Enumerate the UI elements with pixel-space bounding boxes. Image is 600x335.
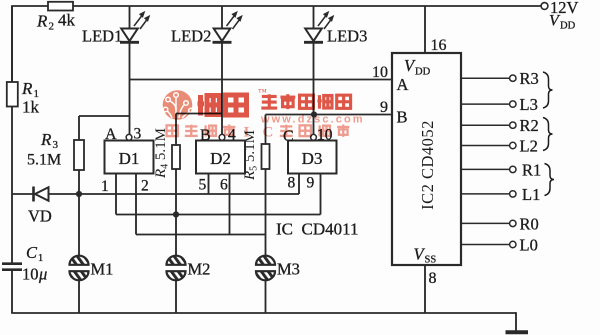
svg-text:2: 2: [141, 178, 149, 195]
svg-text:μ: μ: [38, 265, 47, 284]
ground: [515, 312, 517, 331]
terminal +12V: [541, 3, 548, 10]
svg-text:L3: L3: [520, 95, 538, 114]
svg-text:SS: SS: [425, 255, 437, 266]
svg-text:3: 3: [134, 126, 142, 143]
LED3: [313, 6, 315, 135]
svg-text:L2: L2: [520, 137, 538, 156]
electrode M2: [175, 280, 177, 314]
resistor R5 (vertical label): [262, 144, 270, 169]
wire D2 pin5 stub: [208, 174, 210, 195]
svg-text:R1: R1: [522, 160, 541, 179]
output L0: [461, 244, 510, 246]
svg-text:R3: R3: [520, 69, 539, 88]
output R1: [461, 168, 510, 170]
svg-text:B: B: [397, 108, 408, 127]
svg-text:C: C: [26, 243, 38, 262]
svg-text:10: 10: [372, 64, 388, 81]
LED2: [221, 6, 223, 135]
output R3: [461, 77, 510, 79]
svg-text:C: C: [263, 125, 274, 141]
svg-text:R: R: [36, 12, 48, 31]
capacitor C1: [2, 262, 22, 265]
svg-text:LED3: LED3: [327, 27, 367, 46]
svg-text:5.1M: 5.1M: [27, 152, 61, 169]
svg-text:LED1: LED1: [82, 27, 122, 46]
electrode M3: [265, 280, 267, 314]
svg-text:9: 9: [380, 99, 388, 116]
svg-text:D2: D2: [210, 149, 231, 168]
IC2 CD4052 box: [392, 53, 461, 265]
wire: top supply rail: [11, 5, 541, 7]
junction R4/M2/row2: [173, 211, 179, 217]
wire: row2 D1.1 to D3.9: [115, 174, 117, 215]
junction VD/R3/M1: [76, 191, 82, 197]
node B junction: [311, 111, 317, 117]
svg-text:1: 1: [101, 178, 109, 195]
gate D3: [288, 141, 337, 174]
svg-text:D3: D3: [302, 149, 323, 168]
wire: bottom rail: [11, 312, 516, 314]
svg-text:A: A: [105, 126, 117, 143]
resistor R1: [11, 6, 13, 82]
svg-text:IC2 CD4052: IC2 CD4052: [418, 120, 437, 210]
gate D2: [196, 141, 245, 174]
output R2: [461, 124, 510, 126]
svg-text:6: 6: [220, 177, 228, 194]
svg-text:A: A: [397, 75, 409, 94]
LED1: [129, 6, 131, 135]
wire: left rail: [11, 6, 13, 264]
resistor R2: [48, 2, 73, 11]
gate D1: [105, 141, 154, 174]
svg-text:2: 2: [49, 21, 55, 33]
svg-text:VD: VD: [28, 207, 52, 226]
svg-text:LED2: LED2: [171, 27, 211, 46]
svg-text:M3: M3: [277, 260, 300, 279]
svg-text:IC CD4011: IC CD4011: [276, 220, 359, 239]
svg-text:10: 10: [22, 265, 39, 284]
wire: row3 D1.2 to M3: [135, 174, 137, 235]
svg-text:1: 1: [38, 253, 43, 264]
svg-text:M2: M2: [188, 260, 211, 279]
svg-text:I: I: [244, 125, 250, 141]
pin8 wire: [424, 265, 426, 313]
wire D2 pin6 stub: [229, 174, 231, 235]
svg-text:5: 5: [199, 177, 207, 194]
svg-text:L0: L0: [520, 236, 538, 255]
watermark (decorative): [163, 87, 365, 141]
wire: R4 top to D2 output: [176, 113, 222, 115]
electrode M1: [78, 194, 80, 257]
svg-text:DD: DD: [415, 67, 431, 78]
wire D3 pin8 stub: [298, 174, 300, 195]
svg-text:16: 16: [431, 37, 447, 54]
brace R1/L1: [545, 164, 555, 196]
wire: R3 top to D1 output: [79, 115, 130, 117]
svg-text:www.dzsc.com: www.dzsc.com: [260, 114, 365, 126]
wire: row1 VD net to D2.5/D3.8: [79, 193, 299, 195]
svg-text:R: R: [21, 79, 33, 98]
output L1: [461, 193, 510, 195]
diode VD: [12, 193, 79, 195]
resistor R4 (vertical label): [172, 145, 180, 169]
brace R2/L2: [543, 118, 553, 151]
svg-text:R0: R0: [520, 214, 539, 233]
output L3: [461, 103, 510, 105]
pin16 wire: [424, 6, 426, 53]
wire: node B line R5/D3 out to IC pin9: [266, 114, 393, 116]
svg-text:9: 9: [307, 175, 315, 192]
svg-text:4k: 4k: [58, 11, 76, 30]
svg-text:1k: 1k: [22, 98, 40, 117]
svg-text:8: 8: [288, 175, 296, 192]
svg-text:L1: L1: [522, 185, 540, 204]
output L2: [461, 145, 510, 147]
svg-text:R2: R2: [520, 116, 539, 135]
svg-text:R: R: [40, 130, 52, 149]
svg-text:3: 3: [53, 139, 59, 151]
svg-text:D1: D1: [119, 149, 140, 168]
resistor R3: [74, 140, 84, 170]
brace R3/L3: [543, 72, 553, 108]
svg-text:M1: M1: [91, 260, 114, 279]
wire: node A line D1 out to IC pin10: [130, 79, 393, 81]
svg-text:8: 8: [429, 270, 437, 287]
output R0: [461, 222, 510, 224]
svg-text:DD: DD: [560, 21, 576, 32]
